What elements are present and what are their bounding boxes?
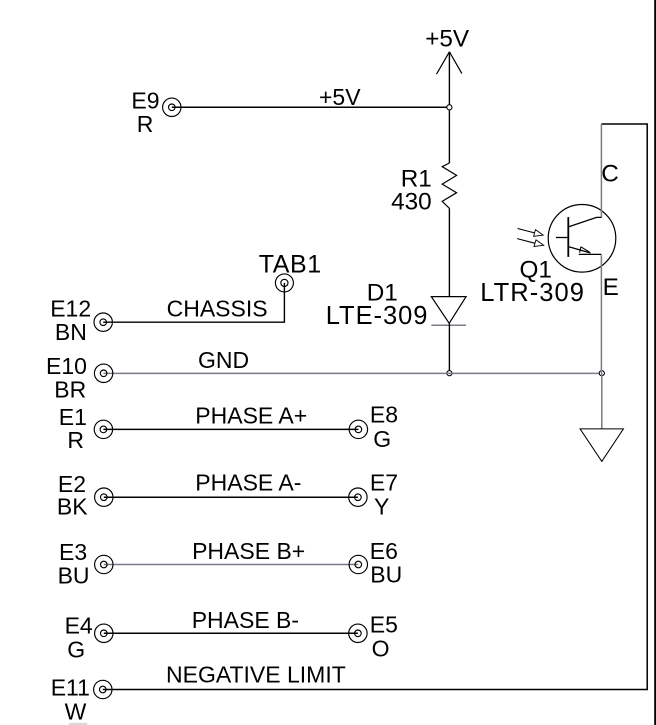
wire PHASE B+ xyxy=(104,564,358,566)
wire E9 to +5V rail xyxy=(172,106,450,108)
svg-text:E: E xyxy=(603,274,619,301)
sheet border right edge xyxy=(654,0,656,725)
transistor Q1 collector lead xyxy=(568,217,601,227)
svg-text:G: G xyxy=(373,426,391,452)
junction GND right xyxy=(599,371,604,376)
svg-text:+5V: +5V xyxy=(425,25,470,52)
svg-text:BK: BK xyxy=(57,494,88,520)
ground symbol xyxy=(580,429,623,462)
artifact mark bottom xyxy=(69,723,88,725)
svg-text:LTE-309: LTE-309 xyxy=(326,302,429,330)
terminal E11 xyxy=(94,680,112,698)
wire CHASSIS xyxy=(103,283,284,322)
svg-text:Y: Y xyxy=(374,493,389,519)
svg-text:TAB1: TAB1 xyxy=(259,251,322,279)
svg-text:LTR-309: LTR-309 xyxy=(480,279,585,307)
svg-text:E8: E8 xyxy=(370,401,398,427)
photo arrow 2 xyxy=(517,239,537,244)
terminal E4 xyxy=(95,624,113,642)
svg-text:PHASE B+: PHASE B+ xyxy=(192,538,305,564)
wire PHASE A+ xyxy=(103,428,358,430)
svg-text:G: G xyxy=(67,637,85,663)
photo arrow 1 xyxy=(518,229,538,234)
svg-text:R: R xyxy=(137,111,154,137)
svg-text:R: R xyxy=(67,427,84,453)
svg-text:E4: E4 xyxy=(65,613,93,639)
diode D1 LED xyxy=(431,297,466,324)
svg-text:BU: BU xyxy=(370,561,402,587)
svg-text:W: W xyxy=(65,699,87,725)
terminal E1 xyxy=(94,420,112,438)
svg-text:E6: E6 xyxy=(370,538,398,564)
terminal E6 xyxy=(349,555,367,573)
svg-text:C: C xyxy=(601,161,619,188)
terminal E7 xyxy=(349,488,367,506)
svg-text:NEGATIVE LIMIT: NEGATIVE LIMIT xyxy=(166,662,346,688)
wire GND rail xyxy=(104,372,602,374)
terminal TAB1 xyxy=(275,274,293,292)
transistor Q1 emitter arrow xyxy=(580,247,581,253)
terminal E5 xyxy=(349,624,367,642)
wire PHASE A- xyxy=(104,496,358,498)
svg-text:O: O xyxy=(372,636,390,662)
svg-text:BR: BR xyxy=(54,376,86,402)
svg-text:E11: E11 xyxy=(51,675,90,701)
resistor R1 xyxy=(442,163,456,208)
terminal E3 xyxy=(95,555,113,573)
svg-text:PHASE B-: PHASE B- xyxy=(192,607,299,633)
terminal E2 xyxy=(95,488,113,506)
svg-text:BN: BN xyxy=(55,319,87,345)
svg-text:E7: E7 xyxy=(370,469,398,495)
svg-text:PHASE A+: PHASE A+ xyxy=(195,403,307,429)
wire D1 to GND rail xyxy=(448,323,450,373)
wire GND junction to ground xyxy=(601,373,603,429)
svg-text:430: 430 xyxy=(391,189,432,216)
terminal E10 xyxy=(94,364,112,382)
wire emitter drop xyxy=(600,255,602,373)
svg-text:E12: E12 xyxy=(50,296,91,322)
transistor Q1 emitter lead xyxy=(568,247,590,253)
terminal E9 xyxy=(163,98,181,116)
wire PHASE B- xyxy=(104,632,358,634)
transistor Q1 base lead xyxy=(556,237,568,239)
svg-text:BU: BU xyxy=(58,563,90,589)
svg-text:PHASE A-: PHASE A- xyxy=(195,470,301,496)
wire NEGATIVE LIMIT xyxy=(103,124,647,690)
terminal E8 xyxy=(349,420,367,438)
cathode bar D1 xyxy=(431,324,466,326)
wire collector drop xyxy=(600,124,602,217)
wire +5V stem xyxy=(448,52,450,163)
svg-text:E9: E9 xyxy=(131,88,159,114)
svg-text:E10: E10 xyxy=(46,353,87,379)
junction D1/GND xyxy=(447,371,452,376)
transistor Q1 base bar xyxy=(567,217,569,257)
transistor Q1 circle xyxy=(548,205,616,273)
wire R1 to D1 xyxy=(448,208,450,296)
svg-text:CHASSIS: CHASSIS xyxy=(167,296,268,322)
svg-text:GND: GND xyxy=(198,347,249,373)
terminal E12 xyxy=(94,313,112,331)
svg-text:+5V: +5V xyxy=(319,84,361,110)
svg-text:E3: E3 xyxy=(59,539,87,565)
power symbol +5V xyxy=(437,52,462,74)
svg-text:E5: E5 xyxy=(370,612,398,638)
junction on +5V rail xyxy=(447,105,452,110)
